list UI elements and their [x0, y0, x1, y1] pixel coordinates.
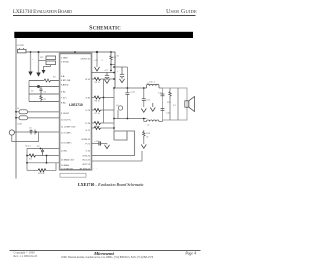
svg-text:LXE1710: LXE1710: [69, 103, 83, 107]
svg-text:S 30: S 30: [86, 97, 91, 99]
svg-text:SCHEMATIC: SCHEMATIC: [89, 25, 121, 31]
svg-text:R4 10k: R4 10k: [38, 173, 44, 175]
svg-text:R8 1k: R8 1k: [95, 126, 100, 128]
svg-text:LXE1710 – Evaluation Board Sch: LXE1710 – Evaluation Board Schematic: [78, 182, 144, 187]
svg-text:R7: R7: [37, 146, 40, 148]
svg-text:DTB 25: DTB 25: [83, 155, 91, 157]
svg-text:C15 .1: C15 .1: [149, 82, 156, 84]
svg-text:7 4V+: 7 4V+: [61, 97, 67, 99]
svg-text:+ C8: + C8: [94, 60, 99, 62]
svg-text:+: +: [32, 59, 34, 61]
svg-text:11 COMP OUT: 11 COMP OUT: [61, 126, 76, 128]
svg-text:+C9: +C9: [104, 70, 109, 72]
svg-text:B 31: B 31: [86, 79, 91, 81]
svg-text:4 BTL/SE: 4 BTL/SE: [61, 80, 71, 82]
svg-text:R16: R16: [146, 133, 151, 135]
svg-text:CE/ST 32: CE/ST 32: [81, 58, 91, 60]
svg-text:AT STB 22: AT STB 22: [80, 168, 91, 171]
svg-text:C11: C11: [146, 100, 150, 102]
svg-text:D 28: D 28: [85, 123, 90, 125]
svg-text:9 CE/ST: 9 CE/ST: [61, 113, 70, 115]
svg-text:+: +: [117, 71, 119, 73]
svg-text:.. . ..: .. . ..: [93, 168, 97, 170]
svg-text:17 STBY AT: 17 STBY AT: [61, 168, 73, 171]
svg-text:CCW: CCW: [17, 124, 22, 126]
svg-text:USER GUIDE: USER GUIDE: [166, 9, 197, 15]
svg-text:2 PVDD: 2 PVDD: [61, 62, 69, 64]
svg-text:R5 1k: R5 1k: [95, 82, 100, 84]
svg-text:8 IN+: 8 IN+: [61, 102, 67, 104]
svg-text:P 21: P 21: [86, 144, 91, 146]
svg-text:F 29: F 29: [86, 110, 91, 112]
svg-text:Rev. 1.1 2000-04-25: Rev. 1.1 2000-04-25: [14, 254, 38, 258]
svg-text:2.2: 2.2: [173, 105, 177, 107]
svg-text:C2: C2: [44, 91, 47, 93]
svg-text:LXE1710 EVALUATION BOARD: LXE1710 EVALUATION BOARD: [13, 9, 72, 15]
svg-text:16 BIAS: 16 BIAS: [61, 164, 70, 167]
svg-text:2k: 2k: [146, 137, 148, 139]
svg-text:R3: R3: [29, 159, 32, 161]
svg-text:12 COMP -: 12 COMP -: [61, 132, 72, 134]
svg-text:S 27: S 27: [86, 130, 91, 132]
svg-text:1 GND: 1 GND: [61, 58, 68, 60]
svg-text:L2: L2: [147, 125, 150, 127]
svg-text:13 COMP +: 13 COMP +: [61, 142, 73, 144]
svg-text:R7 1k: R7 1k: [95, 113, 100, 115]
svg-text:J2: J2: [17, 108, 20, 110]
svg-text:+C10: +C10: [130, 92, 136, 94]
svg-text:6 IN-: 6 IN-: [61, 91, 66, 93]
svg-text:R18: R18: [167, 102, 172, 104]
svg-text:BYP 23: BYP 23: [83, 164, 91, 166]
svg-text:11861 Western Avenue, Garden G: 11861 Western Avenue, Garden Grove, CA. …: [61, 256, 154, 259]
svg-text:C6 1.0: C6 1.0: [25, 145, 32, 147]
svg-text:S1: S1: [117, 56, 120, 58]
svg-text:J1 PWR: J1 PWR: [17, 45, 25, 47]
svg-text:R1: R1: [44, 99, 47, 101]
svg-text:JP1: JP1: [40, 57, 44, 59]
svg-text:3 A-: 3 A-: [61, 75, 65, 78]
svg-text:10 OUT S: 10 OUT S: [61, 119, 71, 121]
svg-text:R2: R2: [53, 77, 56, 79]
svg-text:Page 4: Page 4: [184, 252, 196, 256]
svg-text:10: 10: [31, 91, 34, 93]
svg-text:V 20: V 20: [86, 151, 91, 153]
svg-text:R6 1k: R6 1k: [95, 101, 100, 103]
svg-text:.1: .1: [101, 60, 104, 62]
svg-text:14 NC: 14 NC: [61, 150, 68, 152]
svg-text:NC2 24: NC2 24: [83, 160, 91, 162]
svg-text:+ C18: + C18: [94, 141, 100, 143]
svg-text:C5: C5: [29, 128, 32, 130]
svg-text:15 BIAS OUT: 15 BIAS OUT: [61, 158, 75, 161]
svg-text:5 AVDD: 5 AVDD: [61, 83, 69, 86]
svg-text:EV/M 26: EV/M 26: [82, 139, 91, 141]
